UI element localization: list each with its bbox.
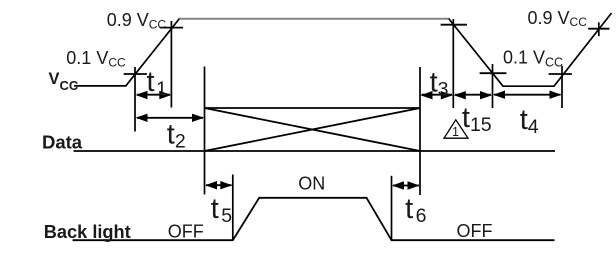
svg-text:OFF: OFF (168, 222, 204, 242)
svg-text:Data: Data (42, 131, 83, 152)
svg-text:OFF: OFF (457, 221, 493, 241)
svg-text:ON: ON (298, 174, 325, 194)
svg-text:1: 1 (452, 125, 459, 139)
svg-text:Back light: Back light (44, 222, 131, 242)
